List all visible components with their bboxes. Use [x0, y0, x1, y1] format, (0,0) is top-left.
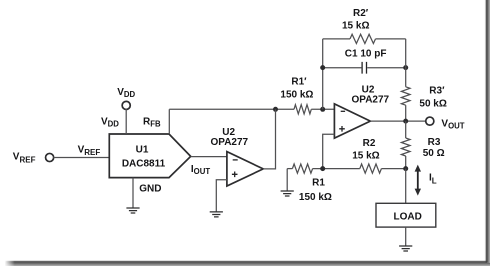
- svg-text:OPA277: OPA277: [210, 137, 248, 148]
- svg-text:R3′: R3′: [429, 86, 445, 97]
- svg-text:R3: R3: [428, 137, 441, 148]
- svg-text:LOAD: LOAD: [394, 211, 422, 222]
- svg-text:GND: GND: [139, 183, 161, 194]
- svg-text:R1′: R1′: [291, 77, 307, 88]
- svg-text:15 kΩ: 15 kΩ: [342, 20, 369, 31]
- svg-text:U1: U1: [136, 145, 149, 156]
- svg-text:150 kΩ: 150 kΩ: [280, 90, 313, 101]
- svg-text:R1: R1: [312, 177, 325, 188]
- svg-text:150 kΩ: 150 kΩ: [299, 192, 332, 203]
- svg-text:DAC8811: DAC8811: [122, 159, 166, 170]
- svg-text:15 kΩ: 15 kΩ: [352, 150, 379, 161]
- svg-text:R2′: R2′: [353, 8, 369, 19]
- svg-text:OPA277: OPA277: [351, 94, 389, 105]
- svg-text:C1 10 pF: C1 10 pF: [345, 48, 387, 59]
- svg-text:50 kΩ: 50 kΩ: [419, 98, 446, 109]
- svg-text:R2: R2: [363, 138, 376, 149]
- svg-text:50 Ω: 50 Ω: [423, 148, 445, 159]
